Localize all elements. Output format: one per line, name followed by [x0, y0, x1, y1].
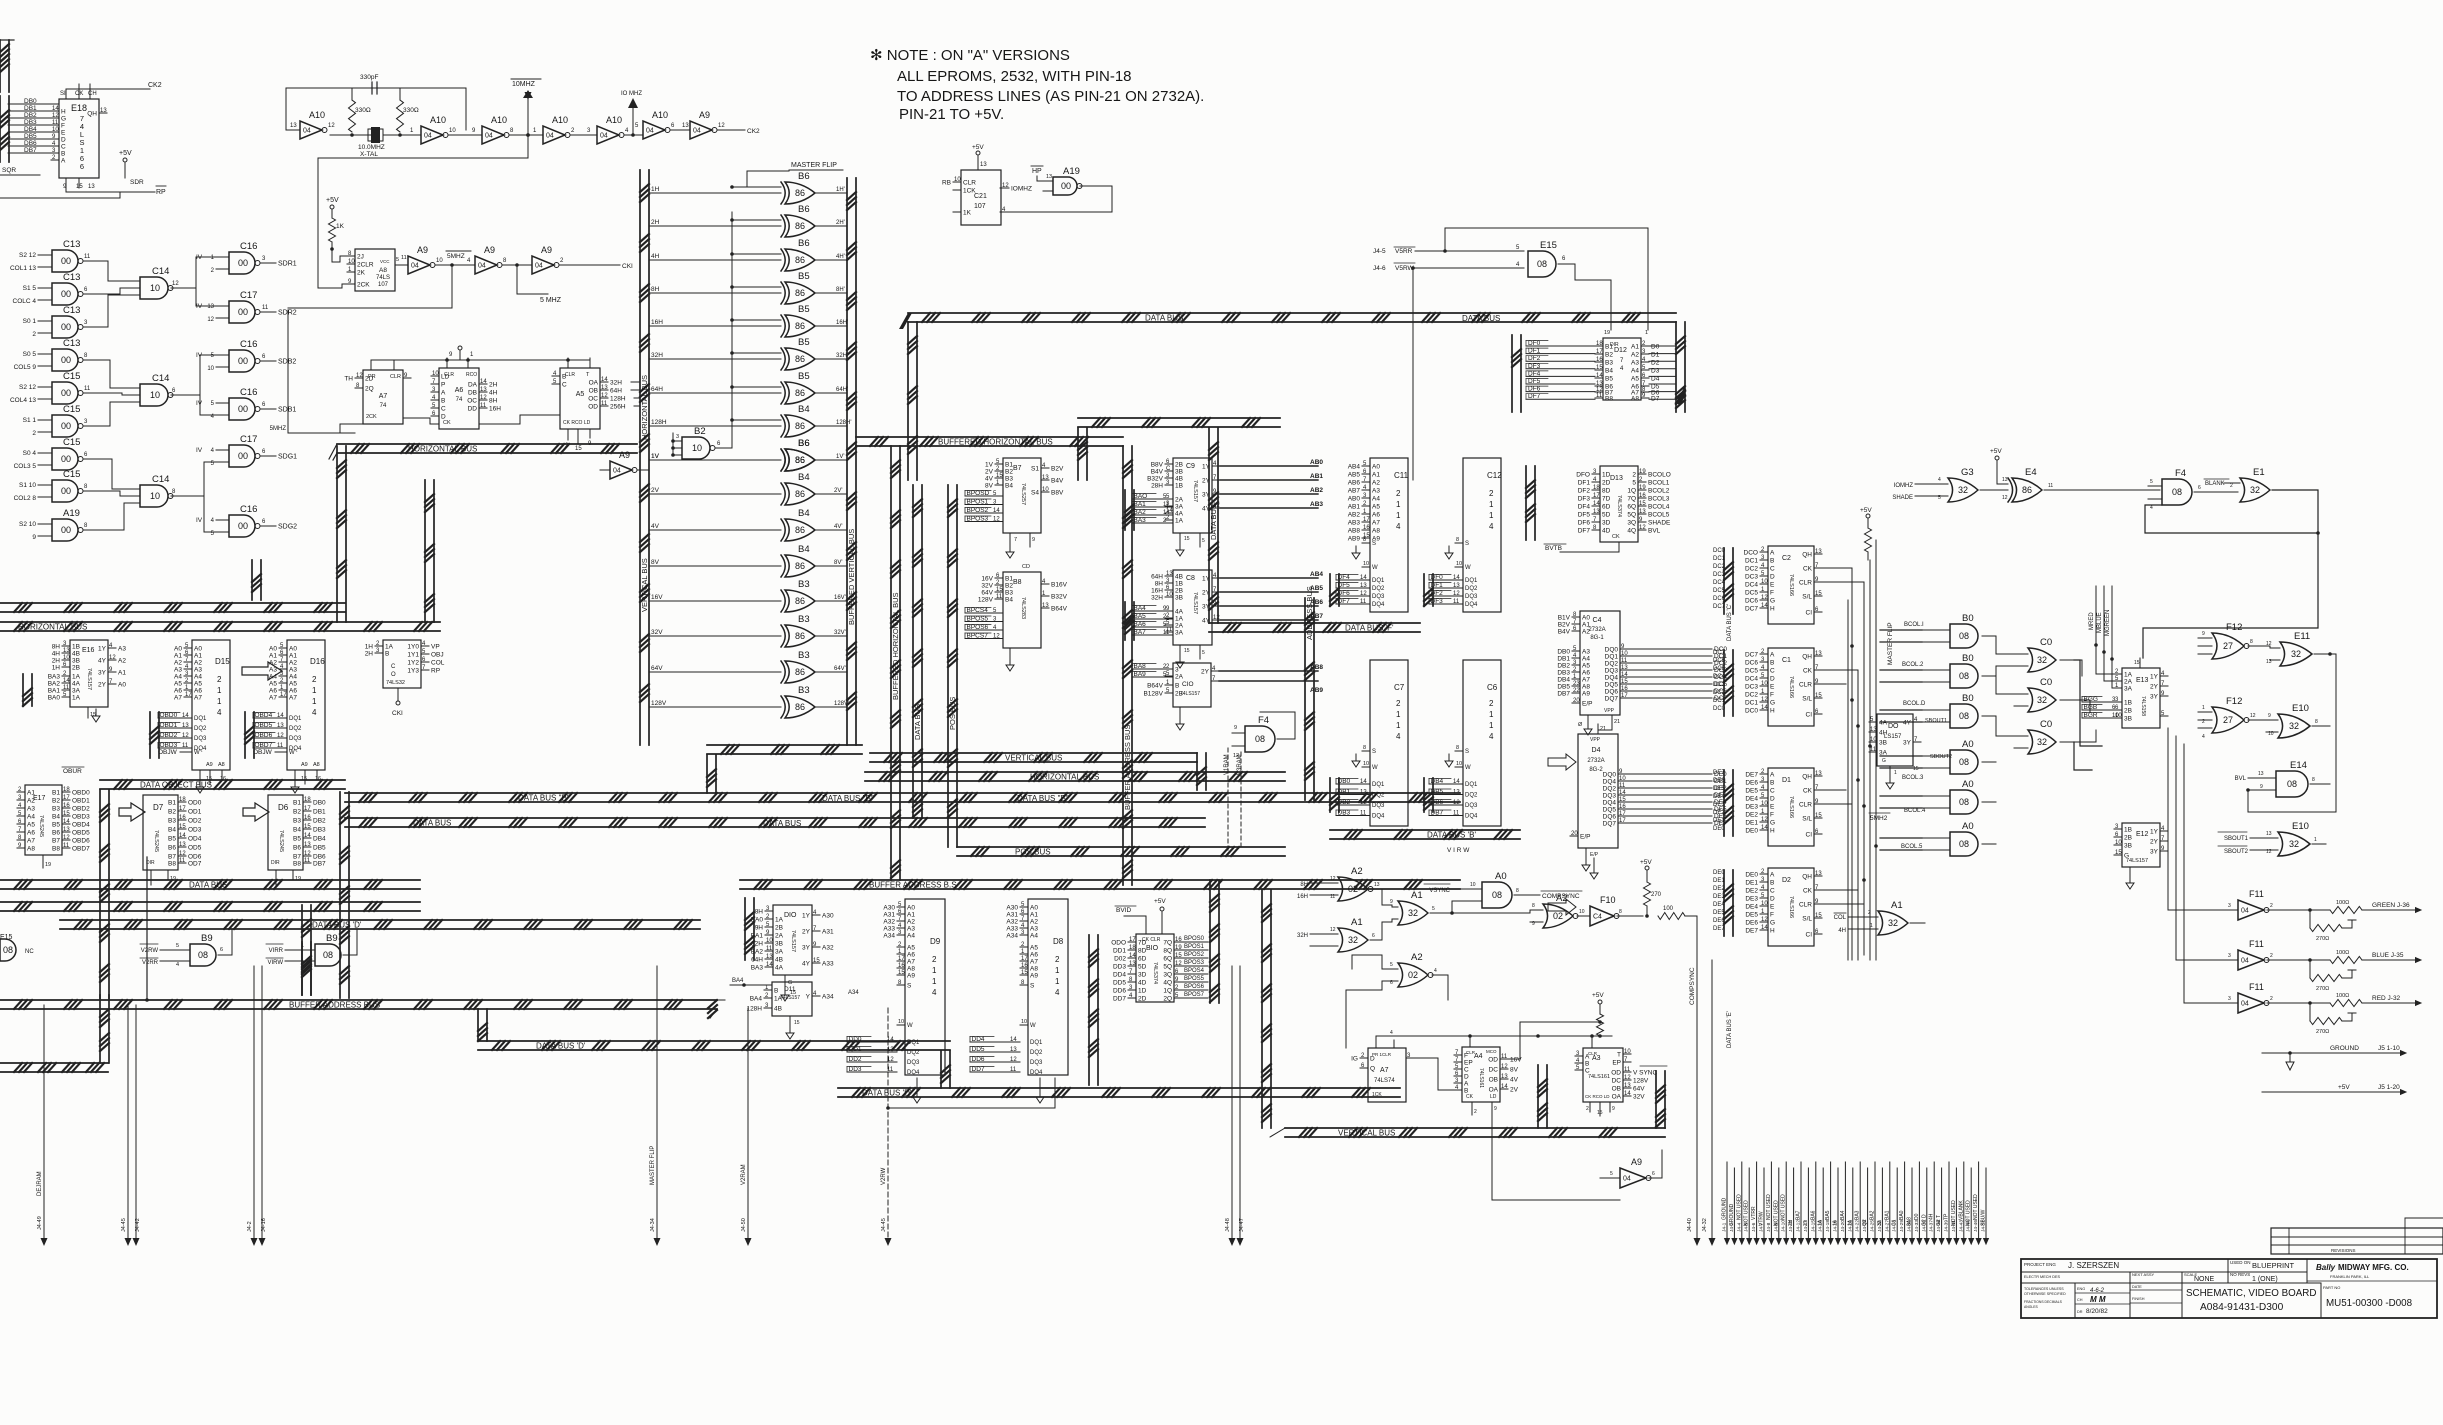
svg-text:74LS157: 74LS157 [780, 995, 800, 1001]
svg-text:CK RCO LD: CK RCO LD [1585, 1094, 1610, 1099]
svg-text:AB4: AB4 [1348, 464, 1361, 471]
svg-text:32: 32 [1958, 485, 1968, 495]
svg-text:C13: C13 [63, 305, 80, 316]
svg-text:86: 86 [795, 525, 805, 535]
svg-text:1A: 1A [775, 917, 784, 924]
svg-text:D6: D6 [278, 803, 289, 812]
svg-text:14: 14 [277, 713, 284, 719]
svg-text:B4: B4 [293, 827, 301, 834]
svg-text:1B: 1B [1175, 483, 1183, 490]
svg-text:A4: A4 [1030, 933, 1038, 940]
wire GROUND J5 [2262, 1045, 2407, 1070]
svg-text:COL1 13: COL1 13 [10, 265, 36, 272]
svg-text:BUFFER ADDRESS B.S: BUFFER ADDRESS B.S [869, 881, 957, 890]
svg-text:J4-34: J4-34 [650, 1218, 656, 1232]
svg-text:VP: VP [431, 644, 440, 651]
svg-text:A10: A10 [309, 110, 325, 120]
svg-text:OA: OA [589, 380, 599, 387]
svg-text:COL: COL [431, 660, 445, 667]
svg-text:2B: 2B [1175, 462, 1183, 469]
svg-text:A: A [1770, 772, 1775, 779]
svg-text:9: 9 [2202, 631, 2205, 637]
svg-text:16: 16 [1021, 963, 1028, 969]
svg-text:DQ3: DQ3 [1372, 803, 1385, 809]
svg-text:G: G [1770, 820, 1775, 827]
IC A7b 74LS74 [1351, 1030, 1414, 1102]
svg-text:11: 11 [1453, 811, 1460, 817]
svg-text:32: 32 [1348, 935, 1358, 945]
svg-text:74: 74 [380, 403, 387, 409]
svg-text:J4-44: J4-44 [1966, 1220, 1972, 1232]
svg-text:BPOS4: BPOS4 [1184, 968, 1205, 974]
svg-text:9: 9 [2268, 713, 2271, 719]
svg-text:86: 86 [795, 188, 805, 198]
bus vertical POS BUS mid [948, 485, 957, 847]
svg-text:1: 1 [932, 966, 937, 975]
svg-text:J4-46: J4-46 [1973, 1220, 1979, 1232]
svg-text:10: 10 [1870, 737, 1877, 743]
svg-text:04: 04 [2241, 958, 2249, 965]
svg-text:J4-18: J4-18 [1825, 1220, 1831, 1232]
svg-text:270: 270 [1651, 892, 1662, 898]
svg-text:A9: A9 [417, 245, 428, 255]
svg-text:17: 17 [185, 692, 192, 698]
svg-text:LS157: LS157 [1884, 734, 1902, 740]
svg-text:2: 2 [1055, 955, 1060, 964]
svg-text:DQ4: DQ4 [1030, 1070, 1043, 1076]
svg-text:C16: C16 [240, 241, 257, 252]
svg-text:DF3: DF3 [1578, 496, 1591, 503]
svg-text:A5: A5 [576, 391, 585, 398]
svg-text:2: 2 [1489, 699, 1494, 708]
svg-text:DF2: DF2 [1578, 488, 1591, 495]
svg-text:DC4: DC4 [1713, 580, 1726, 586]
svg-text:DQ1: DQ1 [1372, 578, 1385, 584]
svg-text:BA9: BA9 [1134, 671, 1147, 678]
svg-text:GROUND: GROUND [2330, 1045, 2359, 1052]
svg-text:A19: A19 [1063, 166, 1080, 177]
svg-text:3: 3 [1175, 667, 1179, 674]
svg-text:C: C [1770, 888, 1775, 895]
svg-text:12: 12 [2266, 849, 2272, 855]
svg-text:1Q: 1Q [1627, 488, 1636, 495]
svg-text:C15: C15 [63, 371, 80, 382]
svg-text:13: 13 [2266, 659, 2272, 665]
wire counter clocks [403, 415, 560, 424]
svg-text:J4-15: J4-15 [1810, 1220, 1816, 1232]
svg-text:B3: B3 [1605, 360, 1613, 367]
svg-text:04: 04 [411, 263, 419, 270]
crystal 10.0MHZ X-TAL [330, 127, 421, 158]
svg-text:5: 5 [1432, 906, 1435, 912]
svg-text:H: H [1770, 606, 1775, 613]
bus vertical ADDRESS BUS [1305, 586, 1314, 800]
svg-text:128H: 128H [610, 396, 626, 403]
IC A7 74LS74 [344, 360, 411, 424]
IC D8 2114 RAM [970, 899, 1068, 1103]
svg-text:A8: A8 [1030, 966, 1038, 973]
svg-text:08: 08 [323, 950, 333, 960]
svg-text:4H: 4H [1929, 1213, 1935, 1220]
IC C7 2114 RAM [1336, 660, 1408, 826]
svg-text:5: 5 [1202, 538, 1205, 544]
svg-text:DATE: DATE [2132, 1285, 2142, 1289]
svg-text:DC6: DC6 [1713, 658, 1726, 664]
svg-text:12: 12 [993, 517, 1000, 523]
NAND gate C16 -> SDG2 [196, 504, 297, 537]
IC 74LS32 (VP/OBJ/COL/RP) [365, 640, 445, 717]
svg-text:CK: CK [1803, 668, 1813, 675]
svg-text:F: F [61, 123, 65, 130]
AND gate A0 #2 [1922, 779, 1996, 814]
svg-text:12: 12 [1639, 525, 1646, 531]
svg-text:DC: DC [1612, 1078, 1622, 1085]
svg-text:A32: A32 [822, 945, 834, 952]
svg-text:A33: A33 [883, 926, 895, 933]
svg-text:OBD6: OBD6 [72, 838, 90, 845]
svg-text:A3: A3 [289, 667, 297, 674]
svg-text:10: 10 [1621, 651, 1628, 657]
svg-text:13: 13 [1042, 603, 1049, 609]
svg-text:15: 15 [1815, 693, 1822, 699]
IC C8 74LS157 [1151, 570, 1220, 668]
svg-text:A0: A0 [1962, 779, 1974, 790]
svg-text:J4-8: J4-8 [1766, 1222, 1772, 1232]
svg-text:13: 13 [1870, 727, 1877, 733]
svg-text:OBJW: OBJW [158, 749, 178, 756]
svg-text:12: 12 [1330, 927, 1336, 933]
svg-text:BA7: BA7 [1796, 1210, 1802, 1220]
svg-text:10: 10 [52, 127, 59, 133]
svg-text:32: 32 [2289, 839, 2299, 849]
inverter A10 #4 [533, 115, 597, 144]
svg-text:11: 11 [401, 255, 407, 261]
svg-text:DQ3: DQ3 [194, 736, 207, 742]
svg-text:AB9: AB9 [1310, 687, 1323, 694]
svg-text:DATA OBJECT BUS: DATA OBJECT BUS [140, 781, 212, 790]
svg-text:DQ0: DQ0 [1605, 647, 1619, 654]
svg-text:15: 15 [898, 970, 905, 976]
bus vertical BUFFERED VERTICAL BUS [847, 178, 856, 745]
svg-text:13: 13 [304, 842, 311, 848]
svg-text:4V: 4V [985, 476, 994, 483]
bus DATA BUS E segment [1078, 418, 1280, 480]
svg-text:1Y: 1Y [802, 913, 811, 920]
svg-text:5MHZ: 5MHZ [447, 253, 465, 260]
svg-text:DE7: DE7 [1745, 772, 1758, 779]
svg-text:1K: 1K [336, 223, 345, 230]
svg-text:16: 16 [304, 815, 311, 821]
svg-text:AB7: AB7 [1348, 488, 1361, 495]
svg-text:15: 15 [1597, 1110, 1603, 1116]
AND gate B0 #2 [1922, 653, 1996, 688]
svg-text:D: D [1464, 1074, 1469, 1081]
svg-text:4D: 4D [1602, 528, 1611, 535]
NAND gate C13 [10, 239, 96, 272]
svg-text:02: 02 [1348, 884, 1358, 894]
svg-text:S: S [1030, 983, 1035, 990]
svg-text:BA3: BA3 [1855, 1210, 1861, 1220]
svg-text:MGREEN: MGREEN [2105, 610, 2111, 636]
svg-text:A10: A10 [606, 115, 622, 125]
svg-text:BCOLO: BCOLO [1648, 472, 1671, 479]
svg-text:00: 00 [61, 289, 71, 299]
NOR gate A2 #1 [1297, 866, 1382, 905]
svg-text:8V': 8V' [834, 560, 842, 566]
svg-text:DQ4: DQ4 [1603, 779, 1617, 786]
wire feedback E11 to E1 [2276, 490, 2342, 812]
svg-text:A3: A3 [118, 646, 126, 653]
svg-text:DE4: DE4 [1745, 796, 1758, 803]
svg-text:DF3: DF3 [1528, 363, 1541, 370]
svg-text:13: 13 [1129, 961, 1136, 967]
svg-text:15: 15 [2115, 850, 2122, 856]
svg-text:B32V: B32V [1051, 594, 1068, 601]
svg-text:A34: A34 [848, 990, 859, 996]
svg-text:SBOUT1: SBOUT1 [1925, 718, 1947, 724]
svg-text:12: 12 [601, 393, 608, 399]
svg-text:1B: 1B [2124, 700, 2132, 707]
XOR gate B6 (2H') [649, 204, 847, 237]
svg-text:TOLERANCES UNLESS: TOLERANCES UNLESS [2024, 1287, 2064, 1291]
svg-text:D02: D02 [1114, 956, 1126, 963]
svg-text:POS BUS: POS BUS [948, 697, 957, 730]
svg-text:QH: QH [1802, 552, 1812, 559]
svg-text:OBD1: OBD1 [72, 798, 90, 805]
svg-text:MASTER FLIP: MASTER FLIP [1887, 622, 1894, 665]
svg-text:A2: A2 [1411, 952, 1423, 963]
svg-text:B3: B3 [168, 818, 176, 825]
svg-text:270Ω: 270Ω [2316, 1029, 2329, 1035]
svg-text:BGR: BGR [2084, 712, 2098, 719]
svg-text:C13: C13 [63, 239, 80, 250]
svg-text:OTHERWISE SPECIFIED: OTHERWISE SPECIFIED [2024, 1292, 2066, 1296]
svg-text:17: 17 [304, 806, 311, 812]
svg-text:5Q: 5Q [1627, 512, 1636, 519]
svg-text:DB0: DB0 [313, 800, 326, 807]
svg-text:BPOS6: BPOS6 [1184, 984, 1205, 990]
svg-text:1: 1 [1396, 500, 1401, 509]
svg-text:F: F [1770, 912, 1774, 919]
svg-text:E1: E1 [2253, 467, 2265, 478]
svg-text:DC0: DC0 [1713, 706, 1726, 712]
svg-text:DE3: DE3 [1713, 894, 1725, 900]
svg-text:CLR: CLR [1799, 682, 1812, 689]
labels DE into D2 [1713, 870, 1725, 932]
svg-text:J4-26: J4-26 [1877, 1220, 1883, 1232]
svg-text:H: H [1770, 708, 1775, 715]
bus POS BUS mid [957, 847, 1285, 857]
svg-text:2: 2 [1489, 489, 1494, 498]
svg-text:BA8: BA8 [1134, 663, 1147, 670]
svg-text:13: 13 [2266, 831, 2272, 837]
svg-text:A7: A7 [1030, 959, 1038, 966]
wires C14 to column3 [185, 257, 216, 532]
svg-text:12: 12 [1761, 697, 1768, 703]
inverter F11 RED [2222, 982, 2422, 1035]
svg-text:BA3: BA3 [751, 965, 764, 972]
svg-text:14: 14 [1360, 575, 1367, 581]
svg-text:S1 10: S1 10 [19, 482, 36, 489]
svg-text:1A: 1A [72, 674, 81, 681]
svg-text:C14: C14 [152, 474, 169, 485]
svg-text:ADDRESS BUS: ADDRESS BUS [1305, 586, 1314, 640]
svg-text:27: 27 [2223, 641, 2233, 651]
svg-text:S: S [1372, 749, 1376, 755]
svg-text:11: 11 [1624, 1067, 1631, 1073]
svg-text:DIR: DIR [1610, 342, 1619, 348]
svg-text:A4: A4 [907, 933, 915, 940]
svg-text:08: 08 [1255, 734, 1265, 744]
svg-text:OD3: OD3 [188, 827, 202, 834]
svg-text:BPOS0: BPOS0 [1184, 936, 1205, 942]
svg-text:5: 5 [396, 257, 399, 263]
svg-text:15: 15 [575, 446, 582, 452]
svg-text:11: 11 [1453, 599, 1460, 605]
svg-text:2H: 2H [489, 382, 498, 389]
svg-text:OBUR: OBUR [63, 768, 82, 775]
svg-text:D4: D4 [1592, 747, 1601, 754]
svg-text:E12: E12 [2136, 831, 2149, 838]
IC D4 2732A [1570, 724, 1626, 879]
svg-text:15: 15 [1619, 797, 1626, 803]
svg-text:2H: 2H [365, 651, 374, 658]
bus stub left of D15 pins [150, 712, 159, 758]
svg-text:B5: B5 [52, 822, 60, 829]
svg-text:1H': 1H' [836, 187, 845, 193]
svg-text:3: 3 [2228, 903, 2231, 909]
svg-text:QH: QH [1802, 874, 1812, 881]
IC C12 2114 RAM [1429, 458, 1502, 612]
svg-text:5: 5 [1610, 1171, 1613, 1177]
OR gate C0 #2 [2014, 677, 2074, 712]
svg-text:DFO: DFO [1576, 472, 1590, 479]
svg-text:X-TAL: X-TAL [360, 151, 378, 158]
svg-text:DQ3: DQ3 [1465, 803, 1478, 809]
svg-text:DE2: DE2 [1745, 888, 1758, 895]
svg-text:D7: D7 [153, 803, 164, 812]
svg-text:C8: C8 [1186, 575, 1195, 582]
NAND gate A19 (HP) [1000, 166, 1112, 212]
svg-text:DQ4: DQ4 [1603, 800, 1617, 807]
wire SQR [0, 167, 120, 198]
svg-text:11: 11 [1360, 811, 1367, 817]
svg-text:B: B [1585, 1061, 1589, 1068]
svg-text:J4-43: J4-43 [1958, 1220, 1964, 1232]
svg-text:6: 6 [1652, 1171, 1655, 1177]
svg-text:B5: B5 [798, 271, 810, 282]
svg-text:AB3: AB3 [1310, 501, 1323, 508]
svg-text:DC1: DC1 [1745, 700, 1758, 707]
svg-text:DC4: DC4 [1713, 674, 1726, 680]
IC B8 74LS283 [978, 564, 1068, 671]
bus tap arrow into D16 [242, 662, 282, 680]
svg-text:A8: A8 [379, 267, 387, 274]
svg-text:256H: 256H [610, 404, 626, 411]
svg-text:B: B [1770, 880, 1774, 887]
svg-text:74LS: 74LS [376, 275, 390, 281]
svg-text:4: 4 [932, 988, 937, 997]
svg-text:A6: A6 [1372, 512, 1380, 519]
svg-text:74LS374: 74LS374 [1616, 495, 1622, 517]
svg-text:VERTICAL BUS: VERTICAL BUS [1005, 754, 1062, 763]
svg-text:ANGLES: ANGLES [2024, 1305, 2038, 1309]
svg-text:Bally: Bally [2316, 1263, 2336, 1272]
svg-text:1: 1 [217, 697, 222, 706]
svg-text:2: 2 [2202, 719, 2205, 725]
svg-text:4D: 4D [1138, 980, 1147, 987]
svg-text:330pF: 330pF [360, 74, 378, 81]
svg-text:17: 17 [1129, 937, 1136, 943]
svg-text:13: 13 [480, 387, 487, 393]
svg-text:A9: A9 [206, 762, 213, 768]
svg-text:B4V: B4V [1051, 478, 1064, 485]
svg-text:32V: 32V [651, 629, 663, 636]
svg-text:E: E [1770, 904, 1775, 911]
svg-text:C7: C7 [1394, 683, 1405, 692]
svg-text:330Ω: 330Ω [403, 107, 419, 114]
svg-text:5D: 5D [1138, 964, 1147, 971]
svg-text:10: 10 [1021, 1019, 1027, 1025]
svg-text:DD3: DD3 [1113, 964, 1126, 971]
svg-text:DF7: DF7 [1578, 528, 1591, 535]
svg-text:B2: B2 [1605, 352, 1613, 359]
svg-text:A1: A1 [194, 653, 202, 660]
svg-text:B5: B5 [293, 836, 301, 843]
svg-text:A0: A0 [194, 646, 202, 653]
svg-text:B7: B7 [1013, 465, 1022, 472]
svg-text:74LS157: 74LS157 [1180, 691, 1200, 697]
svg-text:4: 4 [1396, 732, 1401, 741]
wire J4-48 pair [1225, 966, 1245, 1246]
svg-text:15: 15 [1596, 365, 1603, 371]
inverter A10 #2 [410, 115, 482, 144]
NAND gate C14 [128, 266, 185, 299]
svg-text:B5: B5 [798, 304, 810, 315]
svg-text:B3: B3 [798, 579, 810, 590]
svg-text:1: 1 [312, 686, 317, 695]
AND gate E15 partial left [0, 934, 34, 961]
svg-text:OBD6: OBD6 [255, 732, 273, 739]
svg-text:86: 86 [795, 421, 805, 431]
XOR gate B4 (8V') [649, 544, 847, 577]
svg-text:15: 15 [1639, 501, 1646, 507]
svg-text:A9: A9 [301, 762, 308, 768]
svg-text:J4-13: J4-13 [1803, 1220, 1809, 1232]
svg-text:F10: F10 [1600, 895, 1616, 905]
IC D11 74LS157 [746, 982, 905, 1039]
svg-text:28H: 28H [1151, 483, 1163, 490]
svg-text:86: 86 [2022, 485, 2032, 495]
svg-text:S: S [1372, 541, 1376, 547]
XOR gate B4 (4V') [649, 508, 847, 541]
svg-text:EP: EP [1612, 1060, 1621, 1067]
svg-text:13: 13 [1166, 571, 1173, 577]
svg-text:5MHZ: 5MHZ [270, 426, 287, 432]
svg-text:B3: B3 [1005, 590, 1013, 597]
svg-text:B6: B6 [293, 845, 301, 852]
svg-text:DC0: DC0 [1745, 708, 1758, 715]
svg-text:A: A [1464, 1081, 1469, 1088]
svg-text:OBD4: OBD4 [255, 712, 273, 719]
IC E16 74LS157 [48, 640, 127, 722]
svg-text:16H: 16H [489, 406, 501, 413]
svg-text:J4-38: J4-38 [1936, 1220, 1942, 1232]
svg-text:21: 21 [1600, 726, 1606, 732]
svg-text:8G-1: 8G-1 [1590, 635, 1604, 641]
svg-text:DCO: DCO [1744, 550, 1758, 557]
bus stub left of C6 DB [1424, 778, 1433, 812]
